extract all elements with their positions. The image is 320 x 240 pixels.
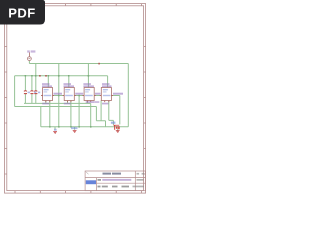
wire B left drop bbox=[14, 76, 16, 107]
title block bbox=[85, 171, 145, 191]
wire gnd stubs bbox=[55, 127, 118, 131]
sheet frame (border) bbox=[5, 4, 146, 194]
net label N2 bbox=[75, 93, 83, 95]
wire right side drop bbox=[127, 64, 129, 127]
wire net B second horizontal bbox=[15, 75, 108, 77]
op-amp U2 bbox=[63, 83, 76, 104]
wire U3 out to U4 in bbox=[94, 95, 101, 97]
net label N1 bbox=[54, 93, 63, 95]
title block texts bbox=[86, 172, 144, 188]
wire gnd rail bbox=[41, 126, 129, 128]
wire rail H4 bbox=[15, 106, 97, 108]
wire net A top horizontal bbox=[29, 63, 128, 65]
wire B to U2 top bbox=[68, 76, 70, 88]
wire C1 leads bbox=[24, 76, 26, 104]
wire U3 pin drops bbox=[87, 101, 90, 127]
wires (green) bbox=[15, 61, 129, 131]
wire output drop bbox=[119, 96, 121, 125]
wire A-B drop x35.8 to C3 bbox=[35, 64, 37, 91]
power flag P1 bbox=[27, 50, 35, 60]
wire H4 end down bbox=[96, 107, 105, 127]
wire U2 pin drops bbox=[68, 101, 71, 127]
wire drop x79.1 bbox=[78, 96, 80, 127]
wire B end drop to U4 top bbox=[107, 76, 109, 88]
wire U1 pin drops bbox=[46, 101, 50, 127]
op-amp U3 bbox=[83, 83, 100, 103]
wire A drop x88.4 to U3 top bbox=[87, 64, 89, 88]
node marks (red) on net B bbox=[39, 63, 100, 77]
ground GND1 bbox=[53, 129, 57, 134]
wire C3 lower lead bbox=[35, 94, 37, 104]
ground GND2 bbox=[71, 127, 78, 132]
ground GND3 bbox=[116, 131, 120, 133]
wire A drop x58.8 to gnd rail bbox=[58, 64, 60, 127]
net label N3 bbox=[95, 93, 101, 95]
wire drop x40.8 bbox=[40, 107, 42, 127]
EasyEDA logo bbox=[86, 180, 96, 184]
battery BT1 bbox=[111, 122, 120, 130]
wire U1 out to U2 in bbox=[53, 95, 65, 97]
wire B to U1 top bbox=[47, 76, 49, 88]
PDF badge bbox=[0, 0, 45, 25]
wire rail H3 bbox=[24, 102, 91, 104]
svg-text:PDF: PDF bbox=[8, 6, 36, 21]
wire U4 pin drops bbox=[101, 101, 113, 126]
net label OUTPUT bbox=[113, 93, 123, 95]
wire U4 out bbox=[111, 95, 119, 97]
capacitor C2 bbox=[30, 91, 36, 94]
junction dots bbox=[25, 75, 92, 128]
wire C2 leads bbox=[31, 76, 33, 104]
op-amp U1 bbox=[41, 83, 54, 104]
capacitor C1 bbox=[24, 91, 30, 94]
op-amp U4 bbox=[100, 83, 113, 104]
wire flag stem bbox=[28, 61, 30, 64]
capacitor C3 bbox=[34, 91, 40, 94]
label +BATT bbox=[27, 50, 30, 52]
wire U2 out to U3 in bbox=[74, 95, 84, 97]
